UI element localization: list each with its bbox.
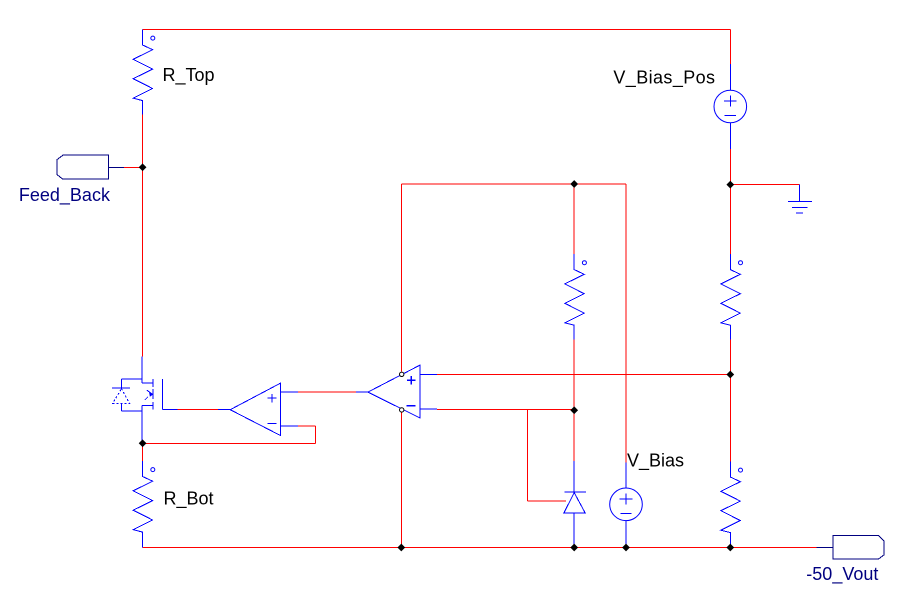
- svg-text:V_Bias_Pos: V_Bias_Pos: [613, 67, 715, 88]
- svg-text:R_Bot: R_Bot: [164, 489, 214, 510]
- svg-text:-50_Vout: -50_Vout: [806, 564, 878, 585]
- svg-text:Feed_Back: Feed_Back: [19, 185, 111, 206]
- svg-text:R_Top: R_Top: [163, 65, 215, 86]
- svg-text:V_Bias: V_Bias: [627, 451, 684, 472]
